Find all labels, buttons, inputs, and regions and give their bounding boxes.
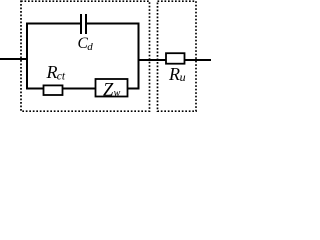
svg-text:ct: ct [57, 70, 66, 82]
svg-text:w: w [114, 88, 121, 99]
svg-text:u: u [180, 70, 186, 84]
svg-text:R: R [46, 62, 58, 82]
svg-text:d: d [87, 41, 93, 53]
svg-text:Z: Z [103, 81, 114, 101]
svg-text:R: R [168, 64, 180, 84]
